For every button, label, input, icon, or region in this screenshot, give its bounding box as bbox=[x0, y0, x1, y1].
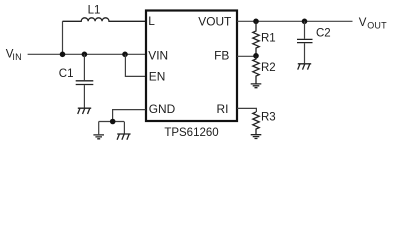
wire RI bbox=[237, 108, 256, 112]
svg-text:R1: R1 bbox=[261, 33, 276, 45]
wire EN branch bbox=[125, 54, 145, 76]
junction dot R1 top bbox=[253, 19, 259, 25]
IC U1 TPS61260 box bbox=[146, 11, 237, 122]
svg-text:C2: C2 bbox=[316, 28, 331, 40]
svg-text:L1: L1 bbox=[88, 5, 101, 17]
ground chassis under C1 bbox=[78, 108, 91, 114]
svg-text:VOUT: VOUT bbox=[198, 15, 231, 29]
wire VIN input rail bbox=[28, 53, 146, 55]
inductor L1 bbox=[63, 18, 146, 21]
wire C2 bottom lead bbox=[304, 43, 306, 63]
svg-text:L: L bbox=[148, 14, 155, 28]
svg-text:RI: RI bbox=[216, 102, 228, 116]
ground chassis right of GND junction bbox=[117, 134, 131, 140]
capacitor C2 bbox=[297, 39, 313, 42]
svg-text:IN: IN bbox=[12, 52, 21, 62]
ground earth bottom-left bbox=[93, 135, 104, 139]
svg-text:C1: C1 bbox=[59, 68, 74, 80]
ground earth under R2 bbox=[251, 84, 262, 88]
ground earth under R3 bbox=[251, 135, 262, 139]
resistor R2 bbox=[253, 56, 259, 84]
wire inductor branch vertical bbox=[62, 21, 64, 54]
junction dot EN branch bbox=[122, 52, 128, 58]
wire C2 top lead bbox=[304, 21, 306, 39]
svg-text:R3: R3 bbox=[261, 112, 276, 124]
wire VOUT rail bbox=[237, 20, 353, 22]
junction dot GND net bbox=[110, 119, 116, 125]
svg-text:EN: EN bbox=[149, 69, 166, 83]
resistor R3 bbox=[253, 112, 259, 135]
junction dot C2 top bbox=[302, 19, 308, 25]
junction dot FB node bbox=[253, 53, 259, 59]
resistor R1 bbox=[253, 21, 259, 56]
ground chassis under C2 bbox=[298, 64, 312, 70]
capacitor C1 bbox=[76, 81, 94, 85]
svg-text:R2: R2 bbox=[261, 62, 276, 74]
wire GND net bbox=[99, 110, 146, 135]
wire C1 top lead bbox=[83, 54, 85, 80]
svg-text:GND: GND bbox=[149, 102, 176, 116]
svg-text:FB: FB bbox=[214, 49, 229, 63]
junction dot inductor branch bbox=[60, 52, 66, 58]
svg-text:VIN: VIN bbox=[148, 49, 168, 63]
svg-text:TPS61260: TPS61260 bbox=[164, 127, 218, 139]
junction dot C1 branch bbox=[82, 52, 88, 58]
svg-text:OUT: OUT bbox=[367, 20, 387, 30]
wire FB bbox=[237, 55, 256, 57]
wire C1 bottom lead bbox=[83, 85, 85, 108]
svg-text:V: V bbox=[359, 17, 367, 29]
